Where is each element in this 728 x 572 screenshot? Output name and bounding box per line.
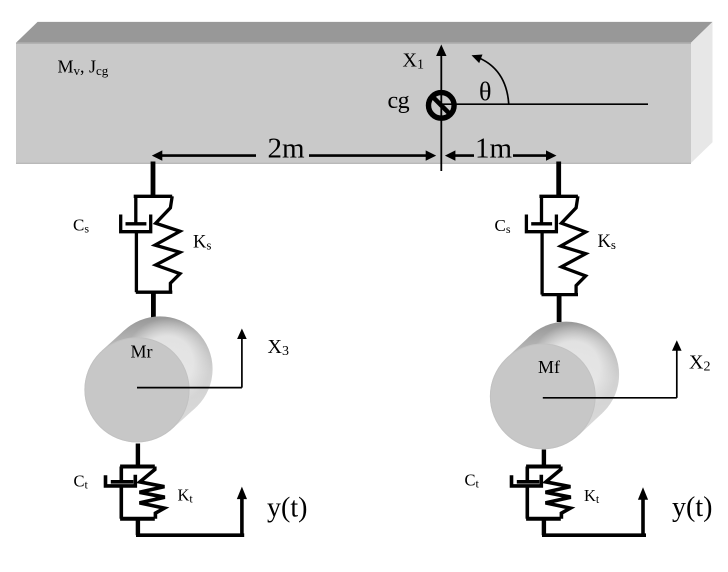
damper Ct-Kt-left-C cylinder cup bbox=[106, 475, 136, 486]
wheel Mr end cap highlight bbox=[123, 318, 210, 405]
spring Ct-Kt-right-K zigzag bbox=[546, 467, 571, 519]
x2 axis horizontal line bbox=[543, 397, 677, 399]
wire: stub below Ct-Kt-left to ground bbox=[136, 519, 140, 536]
wire: stub wheel to Ct-Kt-right top bar bbox=[542, 450, 546, 467]
beam right side face bbox=[691, 22, 713, 163]
node cg vertical axis line bbox=[440, 56, 442, 172]
Ct-Kt-right top bar bbox=[526, 465, 561, 469]
Cs-Ks-right bottom bar bbox=[542, 293, 579, 296]
wheel Mf end cap highlight bbox=[529, 324, 617, 412]
theta arc arrowhead bbox=[472, 55, 483, 64]
svg-text:cg: cg bbox=[388, 88, 410, 114]
dimension 2m left arrowhead bbox=[152, 150, 163, 160]
y(t) arrowhead left bbox=[237, 487, 247, 500]
theta arc bbox=[476, 57, 509, 105]
x3 axis vertical line bbox=[241, 338, 243, 388]
beam bottom edge bbox=[16, 162, 691, 164]
svg-text:1m: 1m bbox=[475, 133, 513, 165]
dimension 1m line left segment bbox=[453, 154, 474, 157]
svg-text:y(t): y(t) bbox=[672, 492, 712, 523]
damper Ct-Kt-left-C rod bbox=[120, 467, 124, 483]
Ct-Kt-left top bar bbox=[120, 465, 155, 469]
damper Ct-Kt-left-C piston bbox=[111, 480, 134, 484]
Cs-Ks-left top bar bbox=[134, 195, 173, 198]
damper Cs-Ks-right-C rod bbox=[540, 196, 543, 225]
x2 arrowhead bbox=[672, 340, 682, 351]
cg symbol diagonal bbox=[432, 96, 452, 116]
x3 axis horizontal line bbox=[137, 387, 242, 389]
svg-text:X2: X2 bbox=[689, 352, 710, 375]
dimension 1m line right segment bbox=[513, 154, 548, 157]
svg-text:Ct: Ct bbox=[465, 471, 480, 491]
wire: stub from beam to Cs-Ks-left top bar bbox=[151, 162, 156, 196]
svg-text:Kt: Kt bbox=[178, 486, 194, 506]
svg-text:Cs: Cs bbox=[495, 216, 511, 236]
damper Cs-Ks-right-C piston bbox=[531, 222, 552, 225]
wheel mass Mr cylinder body bbox=[84, 316, 212, 442]
svg-text:Cs: Cs bbox=[73, 216, 89, 236]
svg-text:θ: θ bbox=[479, 77, 491, 106]
damper Ct-Kt-right-C piston bbox=[517, 480, 540, 484]
damper Cs-Ks-right-C cylinder cup bbox=[526, 215, 556, 232]
wire: damper Cs-Ks-left-C to bottom bar bbox=[135, 232, 138, 293]
wire: damper Ct-Kt-left-C to bottom bar bbox=[120, 486, 124, 519]
svg-text:Ks: Ks bbox=[193, 232, 211, 252]
wire: stub below Ct-Kt-right to ground bbox=[542, 519, 546, 536]
y(t) arrow right line bbox=[641, 497, 645, 535]
svg-text:X3: X3 bbox=[268, 336, 289, 359]
svg-text:y(t): y(t) bbox=[267, 493, 307, 524]
wheel mass Mf cylinder body bbox=[490, 322, 619, 450]
svg-text:Ks: Ks bbox=[598, 232, 616, 252]
x2 axis vertical line bbox=[676, 350, 678, 398]
damper Cs-Ks-left-C piston bbox=[126, 222, 147, 225]
x1 arrowhead bbox=[436, 45, 446, 57]
ground line right bbox=[542, 533, 646, 537]
svg-text:Mr: Mr bbox=[131, 342, 153, 362]
spring Ct-Kt-left-K zigzag bbox=[140, 467, 165, 519]
cg symbol circle bbox=[429, 93, 455, 119]
x3 arrowhead bbox=[237, 329, 247, 340]
beam front-top edge bbox=[16, 42, 691, 44]
Ct-Kt-right bottom bar bbox=[526, 517, 561, 521]
wire: damper Cs-Ks-right-C to bottom bar bbox=[540, 232, 543, 295]
wheel Mf front disc bbox=[490, 344, 595, 449]
dimension 1m left arrowhead bbox=[445, 150, 456, 160]
wire: stub below Cs-Ks-right bottom bar bbox=[557, 295, 562, 322]
wire: damper Ct-Kt-right-C to bottom bar bbox=[525, 486, 529, 519]
Ct-Kt-left bottom bar bbox=[120, 517, 155, 521]
beam front face bbox=[16, 43, 691, 163]
damper Ct-Kt-right-C rod bbox=[525, 467, 529, 483]
wire: stub from beam to Cs-Ks-right top bar bbox=[556, 162, 561, 196]
wire: stub wheel to Ct-Kt-left top bar bbox=[136, 444, 140, 467]
y(t) arrowhead right bbox=[638, 487, 648, 500]
wheel Mr front disc bbox=[85, 338, 189, 442]
damper Cs-Ks-left-C cylinder cup bbox=[121, 215, 151, 232]
damper Cs-Ks-left-C rod bbox=[134, 196, 137, 225]
spring Cs-Ks-right-K zigzag bbox=[561, 196, 586, 294]
svg-text:2m: 2m bbox=[268, 133, 306, 165]
svg-text:Mf: Mf bbox=[538, 357, 560, 377]
cg horizontal reference line bbox=[441, 103, 648, 105]
dimension 2m line right segment bbox=[309, 154, 428, 157]
spring Cs-Ks-left-K zigzag bbox=[155, 196, 180, 292]
dimension 2m right arrowhead bbox=[426, 150, 437, 160]
dimension 2m line left segment bbox=[160, 154, 256, 157]
y(t) arrow left line bbox=[240, 497, 244, 536]
Cs-Ks-left bottom bar bbox=[136, 291, 173, 294]
wire: stub below Cs-Ks-left bottom bar bbox=[151, 292, 156, 319]
damper Ct-Kt-right-C cylinder cup bbox=[512, 475, 542, 486]
ground line left bbox=[136, 533, 244, 537]
svg-text:Ct: Ct bbox=[74, 472, 89, 492]
dimension 1m right arrowhead bbox=[546, 150, 557, 160]
svg-text:Kt: Kt bbox=[584, 486, 600, 506]
beam top face bbox=[16, 22, 713, 43]
Cs-Ks-right top bar bbox=[539, 195, 578, 198]
